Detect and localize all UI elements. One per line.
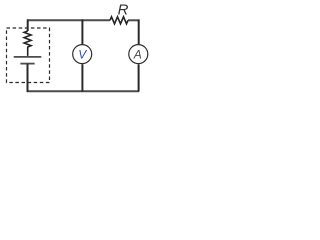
svg-text:R: R: [118, 2, 129, 19]
svg-text:V: V: [78, 48, 87, 62]
svg-text:A: A: [133, 48, 142, 62]
